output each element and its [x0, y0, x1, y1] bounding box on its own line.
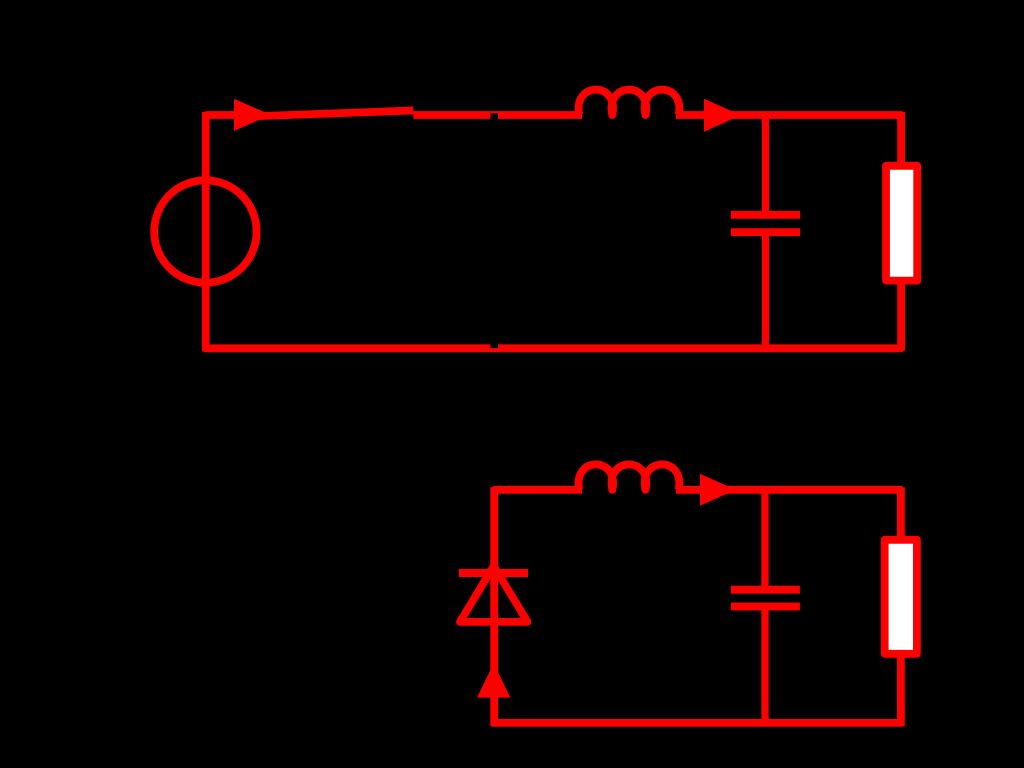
- wire: capacitor branch upper segment (bottom circuit): [761, 487, 768, 589]
- node marker: black tick across top and bottom wires (output reference line): [490, 113, 498, 348]
- voltage source V (circle): [154, 180, 256, 282]
- current arrow (into switch): [234, 99, 271, 131]
- diode D: triangle (anode, pointing up): [460, 566, 528, 622]
- wire: top wire left stub (corner to inductor, bottom circuit): [493, 486, 582, 494]
- wire: top wire from switch contact to inductor: [413, 111, 582, 119]
- current arrow (inductor output, top circuit): [704, 99, 741, 132]
- wire: capacitor branch lower segment (top circuit): [762, 233, 769, 350]
- inductor L (top): [579, 90, 680, 115]
- wire: capacitor branch upper segment (top circuit): [762, 112, 769, 214]
- resistor R (bottom, white-filled rectangle): [885, 540, 917, 654]
- capacitor C (bottom): lower plate: [731, 603, 800, 611]
- wire: right vertical lower segment (resistor to bottom-right corner): [897, 282, 905, 351]
- wire: top wire left stub from corner to current arrow: [205, 111, 240, 119]
- wire: right vertical lower segment (bottom circuit): [897, 654, 905, 726]
- diode D: cathode bar: [459, 569, 528, 577]
- current arrow (inductor output, bottom circuit): [700, 474, 736, 506]
- resistor R (top, white-filled rectangle): [886, 166, 917, 281]
- wire: right vertical upper segment (corner down to resistor): [897, 112, 905, 164]
- capacitor C (top): lower plate: [731, 228, 800, 236]
- wire: bottom wire of top circuit: [203, 344, 902, 352]
- capacitor C (top): upper plate: [731, 211, 800, 219]
- wire: top wire from inductor to top-right corner: [676, 111, 903, 119]
- wire: top wire right part (inductor to top-right corner, bottom circuit): [676, 486, 903, 494]
- wire: bottom wire of bottom circuit: [492, 719, 903, 727]
- current arrow (through diode, pointing up): [477, 663, 510, 697]
- wire: left vertical through diode (bottom circuit): [490, 487, 498, 726]
- capacitor C (bottom): upper plate: [731, 586, 800, 594]
- wire: capacitor branch lower segment (bottom circuit): [761, 607, 768, 725]
- inductor L (bottom): [579, 464, 680, 489]
- switch S (closed blade, slightly tilted): [240, 110, 413, 116]
- wire: right vertical upper segment (bottom circuit): [897, 487, 905, 539]
- wire: left vertical through voltage source: [202, 112, 210, 351]
